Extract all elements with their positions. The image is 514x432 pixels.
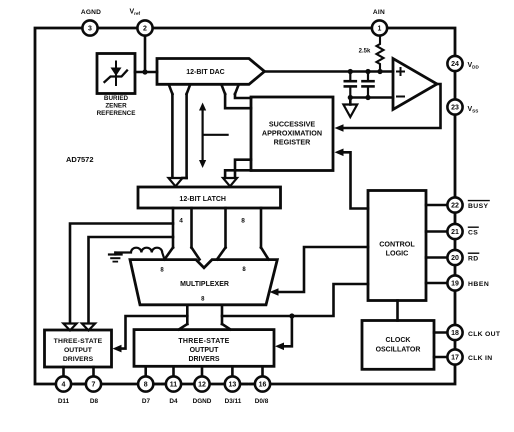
ground	[349, 98, 352, 105]
SAR box	[251, 97, 333, 171]
wire stub pin 8	[144, 366, 147, 376]
wire stub pin 16	[261, 366, 264, 376]
svg-text:SUCCESSIVE: SUCCESSIVE	[269, 120, 316, 129]
wire zener box to DAC	[135, 71, 157, 74]
pin 12 DGND	[194, 376, 209, 391]
bus SAR to latch	[225, 170, 251, 178]
svg-text:CLOCK: CLOCK	[386, 337, 411, 344]
svg-text:21: 21	[451, 229, 459, 236]
wire control to pin 19	[426, 282, 447, 285]
pin 20 RD	[447, 250, 462, 265]
svg-text:20: 20	[451, 255, 459, 262]
wire latch MSB to left driver B	[89, 237, 174, 324]
wire Vref down from pin 2	[144, 36, 147, 73]
svg-text:VDD: VDD	[468, 62, 480, 70]
zener diode symbol	[105, 62, 128, 86]
pin 24 VDD	[447, 56, 462, 71]
wire control to multiplexer	[278, 247, 369, 292]
svg-text:RD: RD	[468, 256, 479, 263]
wire DAC output to comparator	[265, 70, 394, 73]
control logic box	[368, 191, 426, 301]
svg-text:REFERENCE: REFERENCE	[97, 110, 136, 117]
op-amp comparator U3	[393, 59, 437, 110]
node Vref junction	[142, 69, 147, 74]
wire control to clock oscillator	[396, 301, 399, 321]
wire dashed pins 5-6 omitted	[76, 383, 85, 386]
wire stub pin 7	[92, 367, 95, 377]
svg-text:D7: D7	[142, 398, 151, 405]
svg-text:13: 13	[229, 382, 237, 389]
wire control to pin 20	[426, 256, 447, 259]
svg-text:DGND: DGND	[193, 398, 212, 405]
resistor 2.5k	[377, 36, 384, 72]
svg-text:AGND: AGND	[81, 9, 101, 16]
pin 7 D8	[86, 376, 101, 391]
svg-text:CLK IN: CLK IN	[468, 355, 492, 362]
node at C1 tap	[348, 69, 353, 74]
wire comparator output to SAR	[343, 84, 441, 128]
multiplexer block	[130, 260, 277, 305]
12-bit latch box	[138, 187, 281, 208]
svg-text:LOGIC: LOGIC	[386, 249, 409, 258]
pin 19 HBEN	[447, 275, 462, 290]
svg-text:DRIVERS: DRIVERS	[188, 356, 219, 363]
svg-text:12-BIT DAC: 12-BIT DAC	[186, 69, 225, 76]
wire stub pin 4	[62, 367, 65, 377]
wire control to pin 21	[426, 230, 447, 233]
svg-text:8: 8	[241, 218, 245, 225]
svg-text:1: 1	[378, 26, 382, 33]
svg-text:BURIED: BURIED	[104, 95, 129, 102]
pin 18 CLK OUT	[447, 325, 462, 340]
wire enable branch to right driver	[283, 316, 292, 346]
wire stub pin 11	[172, 366, 175, 376]
svg-text:3: 3	[88, 26, 92, 33]
bus latch to multiplexer 8 LSB	[224, 208, 227, 248]
node at resistor tap	[377, 69, 382, 74]
svg-text:8: 8	[201, 297, 205, 303]
capacitor C1	[345, 72, 356, 98]
svg-text:BUSY: BUSY	[468, 203, 489, 210]
svg-text:AD7572: AD7572	[66, 155, 94, 164]
bus DAC to latch	[171, 94, 174, 178]
bus multiplexer to right driver	[186, 305, 189, 324]
bus SAR to DAC	[225, 94, 251, 108]
svg-text:8: 8	[144, 382, 148, 389]
wire latch MSB to left driver A	[70, 224, 173, 324]
pin 11 D4	[166, 376, 181, 391]
wire stub pin 12	[201, 366, 204, 376]
pin 17 CLK IN	[447, 349, 462, 364]
svg-text:HBEN: HBEN	[468, 281, 489, 288]
wire dashed pins 9-10 omitted	[154, 383, 167, 386]
buried zener reference box U2	[97, 54, 135, 94]
svg-text:CLK OUT: CLK OUT	[468, 331, 501, 338]
svg-text:OSCILLATOR: OSCILLATOR	[376, 347, 421, 354]
svg-text:D3/11: D3/11	[225, 398, 242, 405]
svg-text:12: 12	[198, 382, 206, 389]
wire oscillator to pin 18	[434, 331, 447, 334]
12-bit DAC block	[157, 59, 265, 85]
wire control to pin 22	[426, 204, 447, 207]
node at C2 tap	[365, 69, 370, 74]
node enable branch	[289, 313, 294, 318]
svg-text:18: 18	[451, 330, 459, 337]
pin 3 AGND	[82, 20, 97, 35]
wire control logic to SAR	[343, 152, 369, 208]
svg-text:D4: D4	[169, 398, 178, 405]
pin 16 D0/8	[255, 376, 270, 391]
svg-text:17: 17	[451, 355, 459, 362]
svg-text:D8: D8	[90, 398, 99, 405]
svg-text:23: 23	[451, 105, 459, 112]
svg-text:2: 2	[143, 26, 147, 33]
capacitor C2	[363, 72, 374, 98]
pin 22 BUSY	[447, 197, 462, 212]
svg-text:THREE-STATE: THREE-STATE	[54, 338, 103, 345]
svg-text:THREE-STATE: THREE-STATE	[178, 338, 229, 345]
svg-text:VSS: VSS	[468, 106, 479, 114]
svg-text:CONTROL: CONTROL	[379, 240, 415, 249]
pin 23 VSS	[447, 99, 462, 114]
svg-text:OUTPUT: OUTPUT	[64, 347, 93, 354]
bus latch to multiplexer 4 MSB	[172, 208, 175, 248]
svg-text:D0/8: D0/8	[255, 398, 269, 405]
svg-text:11: 11	[170, 382, 178, 389]
wire dashed pins 14-15 omitted	[242, 383, 256, 386]
svg-text:22: 22	[451, 203, 459, 210]
svg-text:APPROXIMATION: APPROXIMATION	[262, 129, 322, 138]
svg-text:OUTPUT: OUTPUT	[190, 347, 220, 354]
svg-text:2.5k: 2.5k	[359, 49, 371, 55]
pin 13 D3/11	[225, 376, 240, 391]
svg-text:24: 24	[451, 61, 459, 68]
pin 2 Vref	[137, 20, 152, 35]
svg-text:MULTIPLEXER: MULTIPLEXER	[180, 281, 229, 288]
node on inverting line	[365, 95, 370, 100]
svg-text:DRIVERS: DRIVERS	[63, 356, 94, 363]
svg-text:ZENER: ZENER	[105, 103, 127, 110]
pin 4 D11	[56, 376, 71, 391]
svg-text:REGISTER: REGISTER	[274, 138, 312, 147]
three-state output drivers right box	[134, 330, 274, 367]
chip outline	[35, 28, 455, 384]
clock oscillator box	[362, 321, 434, 370]
svg-text:4: 4	[179, 218, 183, 225]
svg-text:7: 7	[92, 382, 96, 389]
svg-text:8: 8	[242, 267, 246, 273]
wire oscillator to pin 17	[434, 356, 447, 359]
wire control to output drivers enable	[222, 284, 368, 316]
pin 8 D7	[138, 376, 153, 391]
pin 1 AIN	[372, 20, 387, 35]
ground at multiplexer	[109, 253, 122, 262]
svg-text:Vref: Vref	[130, 9, 141, 17]
pin 21 CS	[447, 224, 462, 239]
wire comparator inverting input	[350, 96, 393, 99]
three-state output drivers left box	[45, 330, 112, 367]
svg-text:CS: CS	[468, 230, 478, 237]
svg-text:8: 8	[160, 268, 164, 274]
svg-text:D11: D11	[58, 398, 70, 405]
svg-text:19: 19	[451, 281, 459, 288]
svg-text:4: 4	[62, 382, 66, 389]
wire stub pin 13	[231, 366, 234, 376]
data flow arrow	[202, 108, 204, 163]
svg-text:12-BIT LATCH: 12-BIT LATCH	[179, 196, 226, 203]
svg-text:16: 16	[259, 382, 267, 389]
coil to multiplexer	[115, 248, 164, 260]
svg-text:AIN: AIN	[373, 9, 385, 16]
